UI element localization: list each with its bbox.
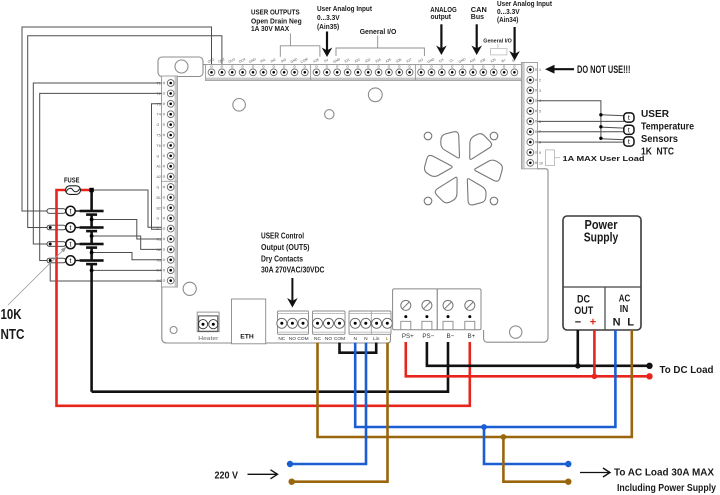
wires sensor top leads <box>601 115 624 140</box>
svg-text:FUSE: FUSE <box>64 178 80 185</box>
arrow DO NOT USE <box>553 68 574 70</box>
junction on common wire <box>90 218 94 222</box>
svg-text:t: t <box>628 127 630 134</box>
svg-text:COM: COM <box>334 336 345 342</box>
svg-text:1: 1 <box>539 68 541 72</box>
top terminal strip J2 <box>206 57 522 81</box>
svg-text:T6: T6 <box>157 144 161 148</box>
svg-text:Including Power Supply: Including Power Supply <box>617 482 716 494</box>
pointer 10K NTC to sensors <box>8 250 64 305</box>
10K NTC sensor lead bodies <box>47 209 66 263</box>
svg-text:9: 9 <box>539 151 541 155</box>
svg-text:To DC Load: To DC Load <box>660 364 714 376</box>
terminal dot To DC Load red <box>646 373 652 379</box>
wire DC OUT - drop <box>576 330 579 366</box>
svg-text:N: N <box>364 336 368 342</box>
wires right strip pins 6-8 to sensors <box>538 121 625 142</box>
terminal dot AC load brown <box>565 479 571 485</box>
svg-text:OUT: OUT <box>574 305 593 317</box>
junction sensor bus <box>599 113 602 116</box>
svg-text:N: N <box>613 317 621 329</box>
arrow 220V <box>248 473 277 475</box>
svg-text:Heater: Heater <box>198 336 218 342</box>
svg-text:30A 270VAC/30VDC: 30A 270VAC/30VDC <box>261 266 325 275</box>
svg-text:t: t <box>70 258 72 265</box>
svg-text:2: 2 <box>539 78 541 82</box>
svg-text:Dry Contacts: Dry Contacts <box>261 254 303 263</box>
wire left strip pin1 to sensor T3 <box>33 83 161 244</box>
svg-text:PS−: PS− <box>422 333 434 340</box>
wire COM2 to Lin (black) <box>340 343 377 353</box>
wire blue branch to AC load <box>484 427 568 464</box>
mounting hole <box>368 88 382 102</box>
wire sensor common to left strip pin20 <box>50 261 161 282</box>
bracket user outputs <box>280 34 320 57</box>
terminal dot To DC Load black <box>646 363 652 369</box>
svg-text:B−: B− <box>447 333 455 340</box>
mounting hole <box>233 99 246 112</box>
mounting hole <box>183 282 196 295</box>
mounting ear top-left <box>158 57 203 77</box>
svg-text:(Ain35): (Ain35) <box>317 22 340 31</box>
svg-text:NC: NC <box>278 336 285 342</box>
svg-text:t: t <box>70 242 72 249</box>
svg-text:NC: NC <box>314 336 321 342</box>
wire right strip pin4 to sensors common <box>538 101 601 139</box>
svg-text:N: N <box>353 336 357 342</box>
svg-text:IN: IN <box>620 304 629 315</box>
svg-text:L: L <box>627 317 634 329</box>
svg-text:G: G <box>157 154 160 158</box>
wire top strip pin1 to sensor T1 <box>22 27 212 211</box>
svg-text:To AC Load 30A MAX: To AC Load 30A MAX <box>614 467 714 479</box>
svg-text:T5: T5 <box>157 134 161 138</box>
sensor plate stack (battery-style plates) <box>80 210 104 266</box>
wire left strip pin3 loop to pin15 <box>152 104 162 230</box>
svg-text:Temperature: Temperature <box>641 122 694 133</box>
svg-text:output: output <box>431 12 452 21</box>
1K NTC user sensors <box>624 113 634 146</box>
power screw block (PS+ PS- B- B+) <box>393 289 481 330</box>
wire red fused supply (fuse to B+) <box>57 190 470 406</box>
svg-text:AC: AC <box>619 294 631 305</box>
svg-text:USER: USER <box>641 109 670 120</box>
wire DC OUT + drop <box>593 330 596 376</box>
wire PS- to DC load (black) <box>427 342 650 366</box>
mounting hole in ear <box>175 60 188 73</box>
svg-text:B+: B+ <box>468 333 476 340</box>
svg-text:1A 30V MAX: 1A 30V MAX <box>251 24 289 33</box>
wire top strip pin2 to sensor T2 <box>28 36 222 228</box>
wire PS+ to DC load (red) <box>406 342 650 376</box>
svg-text:G: G <box>157 123 160 127</box>
svg-text:1K NTC: 1K NTC <box>641 147 674 158</box>
arrow to AC load <box>580 472 609 474</box>
fan <box>424 129 503 208</box>
terminal dot AC load blue <box>565 461 571 467</box>
svg-text:NO: NO <box>289 336 296 342</box>
svg-text:t: t <box>70 225 72 232</box>
wire NC2 to AC IN L (brown) <box>318 330 632 437</box>
svg-text:ETH: ETH <box>240 334 254 341</box>
svg-text:DC: DC <box>577 294 590 306</box>
bracket general io <box>336 36 424 57</box>
relay output block K1 (NC NO COM) <box>277 311 309 334</box>
junction brown AC branch <box>501 434 507 440</box>
junction DC+ <box>592 374 598 380</box>
ethernet jack ETH <box>232 299 266 344</box>
wire 220V N (blue) <box>290 343 366 465</box>
junction sensor bus <box>599 125 602 128</box>
svg-text:(Ain34): (Ain34) <box>497 15 519 24</box>
junction sensor lead <box>49 243 52 246</box>
PCB board outline (right+bottom-right edge) <box>484 169 548 342</box>
svg-text:User Analog Input: User Analog Input <box>317 4 372 13</box>
svg-text:3: 3 <box>539 89 541 93</box>
wire fuse junction to left strip pin15 <box>92 190 162 227</box>
svg-text:PS+: PS+ <box>402 333 414 340</box>
wire stack bottom to left strip pin19 <box>92 269 162 271</box>
svg-text:L: L <box>386 336 389 342</box>
power terminal labels <box>402 333 476 340</box>
svg-text:G: G <box>157 186 160 190</box>
svg-text:A2: A2 <box>157 175 161 179</box>
AC input block (N N Lin L) <box>349 311 392 334</box>
svg-text:10: 10 <box>539 161 543 165</box>
svg-text:10K: 10K <box>1 307 22 323</box>
wire stack tap1 to left strip pin16 <box>92 220 162 240</box>
junction sensor lead <box>49 259 52 262</box>
svg-text:t: t <box>70 209 72 216</box>
bracket 1A MAX user load <box>546 150 555 166</box>
svg-text:5: 5 <box>539 110 541 114</box>
junction DC- <box>575 363 581 369</box>
svg-text:Bus: Bus <box>471 12 484 21</box>
wire stack tap2 to left strip pin17 <box>92 236 162 249</box>
wire stack tap3 to left strip pin18 <box>92 253 162 260</box>
wire 220V L (brown) <box>292 343 388 482</box>
junction sensor bus <box>599 137 602 140</box>
svg-text:t: t <box>628 115 630 122</box>
svg-text:NO: NO <box>325 336 332 342</box>
heater connector <box>197 312 219 332</box>
svg-text:+: + <box>590 317 596 329</box>
wire left strip pin2 to sensor T4 <box>40 93 162 260</box>
relay output block K2 (NC NO COM) <box>313 311 346 334</box>
svg-text:COM: COM <box>297 336 308 342</box>
power supply U1 box <box>563 216 641 330</box>
svg-text:0...3.3V: 0...3.3V <box>317 13 340 22</box>
arrow can bus <box>476 24 478 49</box>
svg-text:−: − <box>575 317 581 329</box>
wire black sensor common to B- <box>92 190 448 392</box>
PCB board outline (left+bottom-left edge) <box>162 66 391 343</box>
svg-text:NTC: NTC <box>1 327 25 343</box>
mounting hole <box>325 110 334 119</box>
relay terminal labels <box>278 336 388 342</box>
svg-text:Supply: Supply <box>584 229 619 244</box>
arrow analog output <box>440 24 442 49</box>
junction sensor lead <box>49 226 52 229</box>
junction fuse/common node <box>89 188 93 192</box>
svg-text:t: t <box>628 139 630 146</box>
junction on common wire <box>90 269 94 273</box>
wire N to AC IN N (blue) <box>355 330 615 427</box>
arrow user control output <box>291 278 293 302</box>
10K NTC sensors T1-T4 <box>66 206 80 265</box>
svg-text:B2: B2 <box>157 206 161 210</box>
terminal dot 220V blue <box>287 461 293 467</box>
arrow Ain35 <box>326 32 328 52</box>
svg-text:USER OUTPUTS: USER OUTPUTS <box>251 8 300 17</box>
junction on common wire <box>90 234 94 238</box>
right terminal strip J4 (do not use) <box>522 63 544 169</box>
svg-text:DO NOT USE!!!: DO NOT USE!!! <box>577 64 631 76</box>
wire brown branch to AC load <box>503 437 568 482</box>
arrow Ain34 <box>513 27 515 55</box>
mounting hole <box>510 326 522 338</box>
fuse F1 <box>66 186 81 195</box>
svg-text:G: G <box>157 217 160 221</box>
svg-text:B1: B1 <box>157 196 161 200</box>
junction blue AC branch <box>481 424 487 430</box>
svg-text:1A MAX User Load: 1A MAX User Load <box>563 154 646 163</box>
mounting hole <box>170 327 177 334</box>
junction on common wire <box>90 251 94 255</box>
svg-text:USER Control: USER Control <box>261 232 304 241</box>
svg-text:Sensors: Sensors <box>641 134 678 145</box>
svg-text:A1: A1 <box>157 165 161 169</box>
svg-text:General I/O: General I/O <box>360 27 397 36</box>
terminal dot 220V brown <box>289 479 295 485</box>
svg-text:Lin: Lin <box>373 336 380 342</box>
PCB board outline (top edge) <box>203 64 522 66</box>
svg-text:220 V: 220 V <box>215 469 239 481</box>
left terminal strip J3 <box>157 76 178 287</box>
svg-text:T4: T4 <box>157 113 161 117</box>
svg-text:Output (OUT5): Output (OUT5) <box>261 243 310 252</box>
bracket general io small <box>491 49 507 55</box>
